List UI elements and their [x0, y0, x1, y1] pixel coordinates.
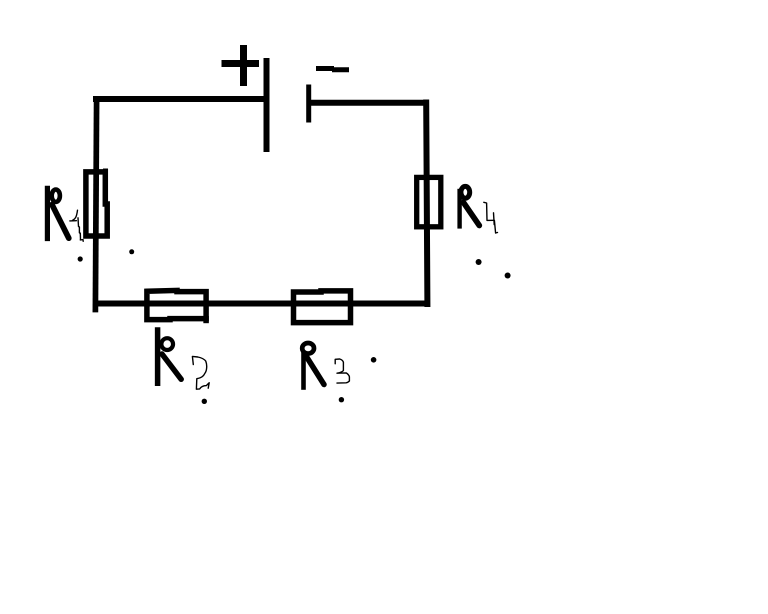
- wire: bottom horizontal through R2 and R3: [94, 301, 430, 307]
- battery B1 positive plate (long): [264, 61, 270, 149]
- stray dot below R1 label: [78, 256, 83, 261]
- stray dot below R4 label: [476, 259, 482, 265]
- stray dot lower right of R4 label: [505, 273, 511, 279]
- wire: top-right horizontal from battery - plate to right branch: [311, 100, 426, 106]
- stray dot right of R1: [129, 249, 134, 254]
- label R3: hand-drawn letter R: [302, 343, 324, 388]
- stray dot below subscript 2: [202, 399, 207, 404]
- resistor R2 body (horizontal box on bottom wire): [147, 290, 206, 323]
- stray dot below subscript 3: [339, 397, 344, 402]
- label R3: thin subscript 3: [335, 359, 349, 383]
- label R2: thin subscript 2: [192, 356, 209, 389]
- wire: right vertical through R4: [426, 103, 427, 305]
- minus sign label: [319, 69, 347, 70]
- battery B1 negative plate (short): [306, 87, 311, 120]
- stray dot right of R3 label: [371, 357, 377, 363]
- label R4: thin subscript 4: [484, 202, 498, 233]
- plus sign label: [225, 49, 256, 83]
- wire: left vertical through R1: [95, 99, 96, 310]
- label R4: hand-drawn letter R: [460, 186, 480, 226]
- label R1: hand-drawn letter R: [47, 188, 68, 238]
- resistor R1 body (vertical box on left wire): [86, 169, 107, 237]
- label R1: thin subscript 1: [70, 210, 83, 241]
- wire: top-left horizontal from node A to battery + plate: [96, 96, 264, 102]
- resistor R3 body (horizontal box on bottom wire): [294, 291, 351, 323]
- resistor R4 body (vertical box on right wire): [417, 177, 441, 226]
- label R2: hand-drawn letter R: [158, 330, 182, 383]
